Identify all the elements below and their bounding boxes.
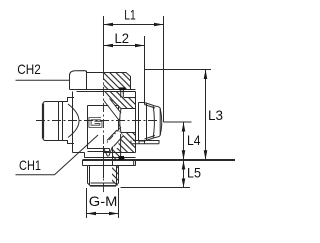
thread symbol (outlined G) <box>90 119 101 127</box>
white void: bottom bore <box>104 144 112 178</box>
dim L2 <box>104 45 145 47</box>
L5 arrows <box>182 161 186 170</box>
right nut end cap <box>160 109 162 136</box>
top bore cone edge <box>105 92 112 106</box>
L1 arrows <box>104 23 114 27</box>
G-M arrows <box>87 212 97 216</box>
CH2 leader underline <box>16 79 70 81</box>
svg-text:G-M: G-M <box>89 193 118 209</box>
stud chamfer line <box>91 182 116 184</box>
ext line top right <box>145 69 212 71</box>
top port nut outline <box>70 71 131 90</box>
svg-text:L3: L3 <box>208 107 223 123</box>
dim L3 <box>205 70 207 160</box>
svg-text:L4: L4 <box>187 132 201 148</box>
right port bottom band <box>131 141 160 144</box>
svg-text:CH2: CH2 <box>17 61 41 77</box>
upper diagonal passage (top port to side bore) <box>104 99 121 120</box>
right port bore lines <box>120 109 136 133</box>
hatch nut top right <box>104 73 131 90</box>
svg-text:L1: L1 <box>124 6 136 22</box>
dim L4 <box>183 122 185 160</box>
stud thread lines <box>90 166 117 186</box>
seal black top <box>119 87 125 90</box>
white notch under nut right <box>124 90 136 98</box>
funnel V into stud bore <box>104 147 113 157</box>
dim L5 <box>183 160 185 188</box>
diagonal passage edges <box>107 130 124 147</box>
white void: cavity window <box>88 106 119 149</box>
stud bottom ext line <box>121 187 191 189</box>
CH1 leader underline + diagonal <box>16 135 99 175</box>
stud bottom bold <box>90 185 116 187</box>
svg-text:CH1: CH1 <box>19 157 41 173</box>
L4 arrows <box>182 122 186 132</box>
white void: top port bore <box>104 92 113 106</box>
left port ball arc <box>68 104 79 138</box>
bottom bore walls <box>104 146 113 178</box>
dim L1 <box>104 24 164 26</box>
white void: right port bore <box>120 109 136 133</box>
dim G-M <box>87 188 119 218</box>
left nut facet <box>58 102 60 141</box>
shoulder hex <box>83 160 136 166</box>
hatch body right half <box>104 92 136 153</box>
top nut bottom edge <box>70 89 131 91</box>
right cavity wall below bore <box>120 134 122 156</box>
hatch stud right half <box>112 166 119 186</box>
window lower second line <box>88 149 110 152</box>
svg-text:L2: L2 <box>115 30 130 46</box>
left port flange <box>63 98 75 144</box>
L3 arrows <box>204 70 208 80</box>
port step lines under nut <box>121 90 136 98</box>
left port nut <box>43 102 63 141</box>
centerline vertical <box>103 16 105 71</box>
shoulder right step <box>124 158 134 166</box>
arrowheads <box>87 23 208 216</box>
svg-text:L5: L5 <box>187 165 201 181</box>
passage centerline <box>106 127 121 144</box>
shoulder top long line <box>83 159 236 161</box>
white void: diagonal passage <box>107 130 124 147</box>
body top edge <box>77 91 136 93</box>
right nut facet lines <box>146 103 148 140</box>
right port washer <box>139 103 145 142</box>
top nut facet line <box>86 71 88 90</box>
seal black bottom <box>119 156 125 160</box>
hatch neck band <box>112 153 121 160</box>
cavity window <box>88 106 119 149</box>
centerline horizontal <box>36 120 157 122</box>
stud <box>88 166 119 187</box>
right port nut <box>145 103 161 142</box>
L2 arrows <box>104 44 114 48</box>
body outline <box>73 92 136 158</box>
